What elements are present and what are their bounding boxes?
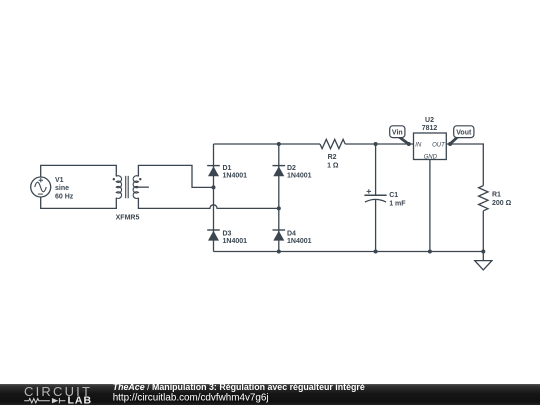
wire top rail bridge to R2 bbox=[214, 143, 321, 145]
wire bridge left branch D1-D3 bbox=[213, 144, 215, 252]
svg-text:R2: R2 bbox=[328, 154, 337, 161]
wire U2 OUT to R1 top bbox=[446, 144, 483, 186]
XFMR5 secondary center tap stub bbox=[136, 186, 149, 188]
junction node at secondary top / left branch bbox=[212, 185, 216, 189]
node flag Vout bbox=[448, 126, 474, 146]
svg-text:200 Ω: 200 Ω bbox=[492, 200, 512, 207]
svg-text:V1: V1 bbox=[55, 177, 64, 184]
svg-text:http://circuitlab.com/cdvfwhm4: http://circuitlab.com/cdvfwhm4v7g6j bbox=[113, 392, 269, 403]
footer logo resistor-diode squiggle bbox=[24, 399, 50, 403]
wire C1 top branch bbox=[375, 144, 377, 195]
svg-text:1N4001: 1N4001 bbox=[287, 173, 312, 180]
junction node right branch bottom bbox=[277, 250, 281, 254]
svg-text:IN: IN bbox=[415, 143, 422, 149]
svg-text:Vin: Vin bbox=[392, 129, 403, 136]
svg-text:C1: C1 bbox=[389, 192, 398, 199]
wire V1 top to XFMR5 primary top bbox=[41, 165, 117, 177]
svg-text:R1: R1 bbox=[492, 192, 501, 199]
wire bridge right branch D2-D4 bbox=[278, 144, 280, 252]
resistor R2 bbox=[320, 139, 345, 148]
footer bar bbox=[0, 382, 540, 405]
diode D2 bbox=[273, 166, 286, 177]
junction node right branch mid bbox=[277, 206, 281, 210]
ground bbox=[475, 252, 492, 270]
svg-text:GND: GND bbox=[424, 154, 438, 160]
wire XFMR5 secondary top to bridge node A bbox=[138, 165, 213, 187]
svg-text:D1: D1 bbox=[223, 165, 232, 172]
wire R2 to U2 IN bbox=[345, 143, 413, 145]
svg-text:Vout: Vout bbox=[456, 129, 472, 136]
svg-text:sine: sine bbox=[55, 185, 69, 192]
svg-text:1N4001: 1N4001 bbox=[287, 238, 312, 245]
svg-text:1 mF: 1 mF bbox=[389, 201, 406, 208]
wire U2 GND to bottom rail bbox=[429, 160, 431, 252]
wire R1 bottom to rail bbox=[482, 211, 484, 252]
svg-text:XFMR5: XFMR5 bbox=[116, 215, 140, 222]
svg-text:TheAce / Manipulation 3: Régul: TheAce / Manipulation 3: Régulation avec… bbox=[113, 382, 365, 392]
junction node U2 GND bottom bbox=[428, 250, 432, 254]
junction node R1 bottom / ground bbox=[481, 250, 485, 254]
capacitor C1 bbox=[364, 189, 386, 202]
svg-text:1N4001: 1N4001 bbox=[223, 238, 248, 245]
node Vin junction dot (C1 branch) bbox=[374, 142, 378, 146]
svg-text:LAB: LAB bbox=[68, 394, 93, 405]
wire C1 bottom branch bbox=[375, 200, 377, 252]
op-amp U2 regulator box 7812 bbox=[414, 133, 447, 160]
transformer XFMR5 primary winding bbox=[116, 176, 121, 199]
XFMR5 core bbox=[126, 176, 129, 198]
svg-text:60 Hz: 60 Hz bbox=[55, 194, 74, 201]
transformer XFMR5 secondary winding bbox=[133, 176, 138, 199]
diode D1 bbox=[207, 166, 220, 177]
XFMR5 primary phase dot bbox=[113, 178, 115, 180]
XFMR5 secondary phase dot bbox=[139, 178, 141, 180]
resistor R1 bbox=[479, 186, 488, 211]
svg-text:1 Ω: 1 Ω bbox=[327, 163, 339, 170]
svg-text:D4: D4 bbox=[287, 230, 296, 237]
junction node right branch top bbox=[277, 142, 281, 146]
wire XFMR5 secondary bottom to bridge node B (hop over left branch) bbox=[138, 198, 278, 209]
wire bottom rail bbox=[214, 251, 484, 253]
svg-text:1N4001: 1N4001 bbox=[223, 173, 248, 180]
svg-text:D2: D2 bbox=[287, 165, 296, 172]
voltage source V1 bbox=[31, 177, 51, 197]
diode D4 bbox=[273, 230, 286, 241]
svg-text:OUT: OUT bbox=[432, 143, 446, 149]
svg-text:7812: 7812 bbox=[422, 125, 438, 132]
junction node C1 bottom bbox=[374, 250, 378, 254]
svg-text:D3: D3 bbox=[223, 230, 232, 237]
wire V1 bottom to XFMR5 primary bottom bbox=[41, 197, 117, 209]
node flag Vin bbox=[390, 126, 411, 146]
diode D3 bbox=[207, 230, 220, 241]
svg-text:U2: U2 bbox=[425, 117, 434, 124]
